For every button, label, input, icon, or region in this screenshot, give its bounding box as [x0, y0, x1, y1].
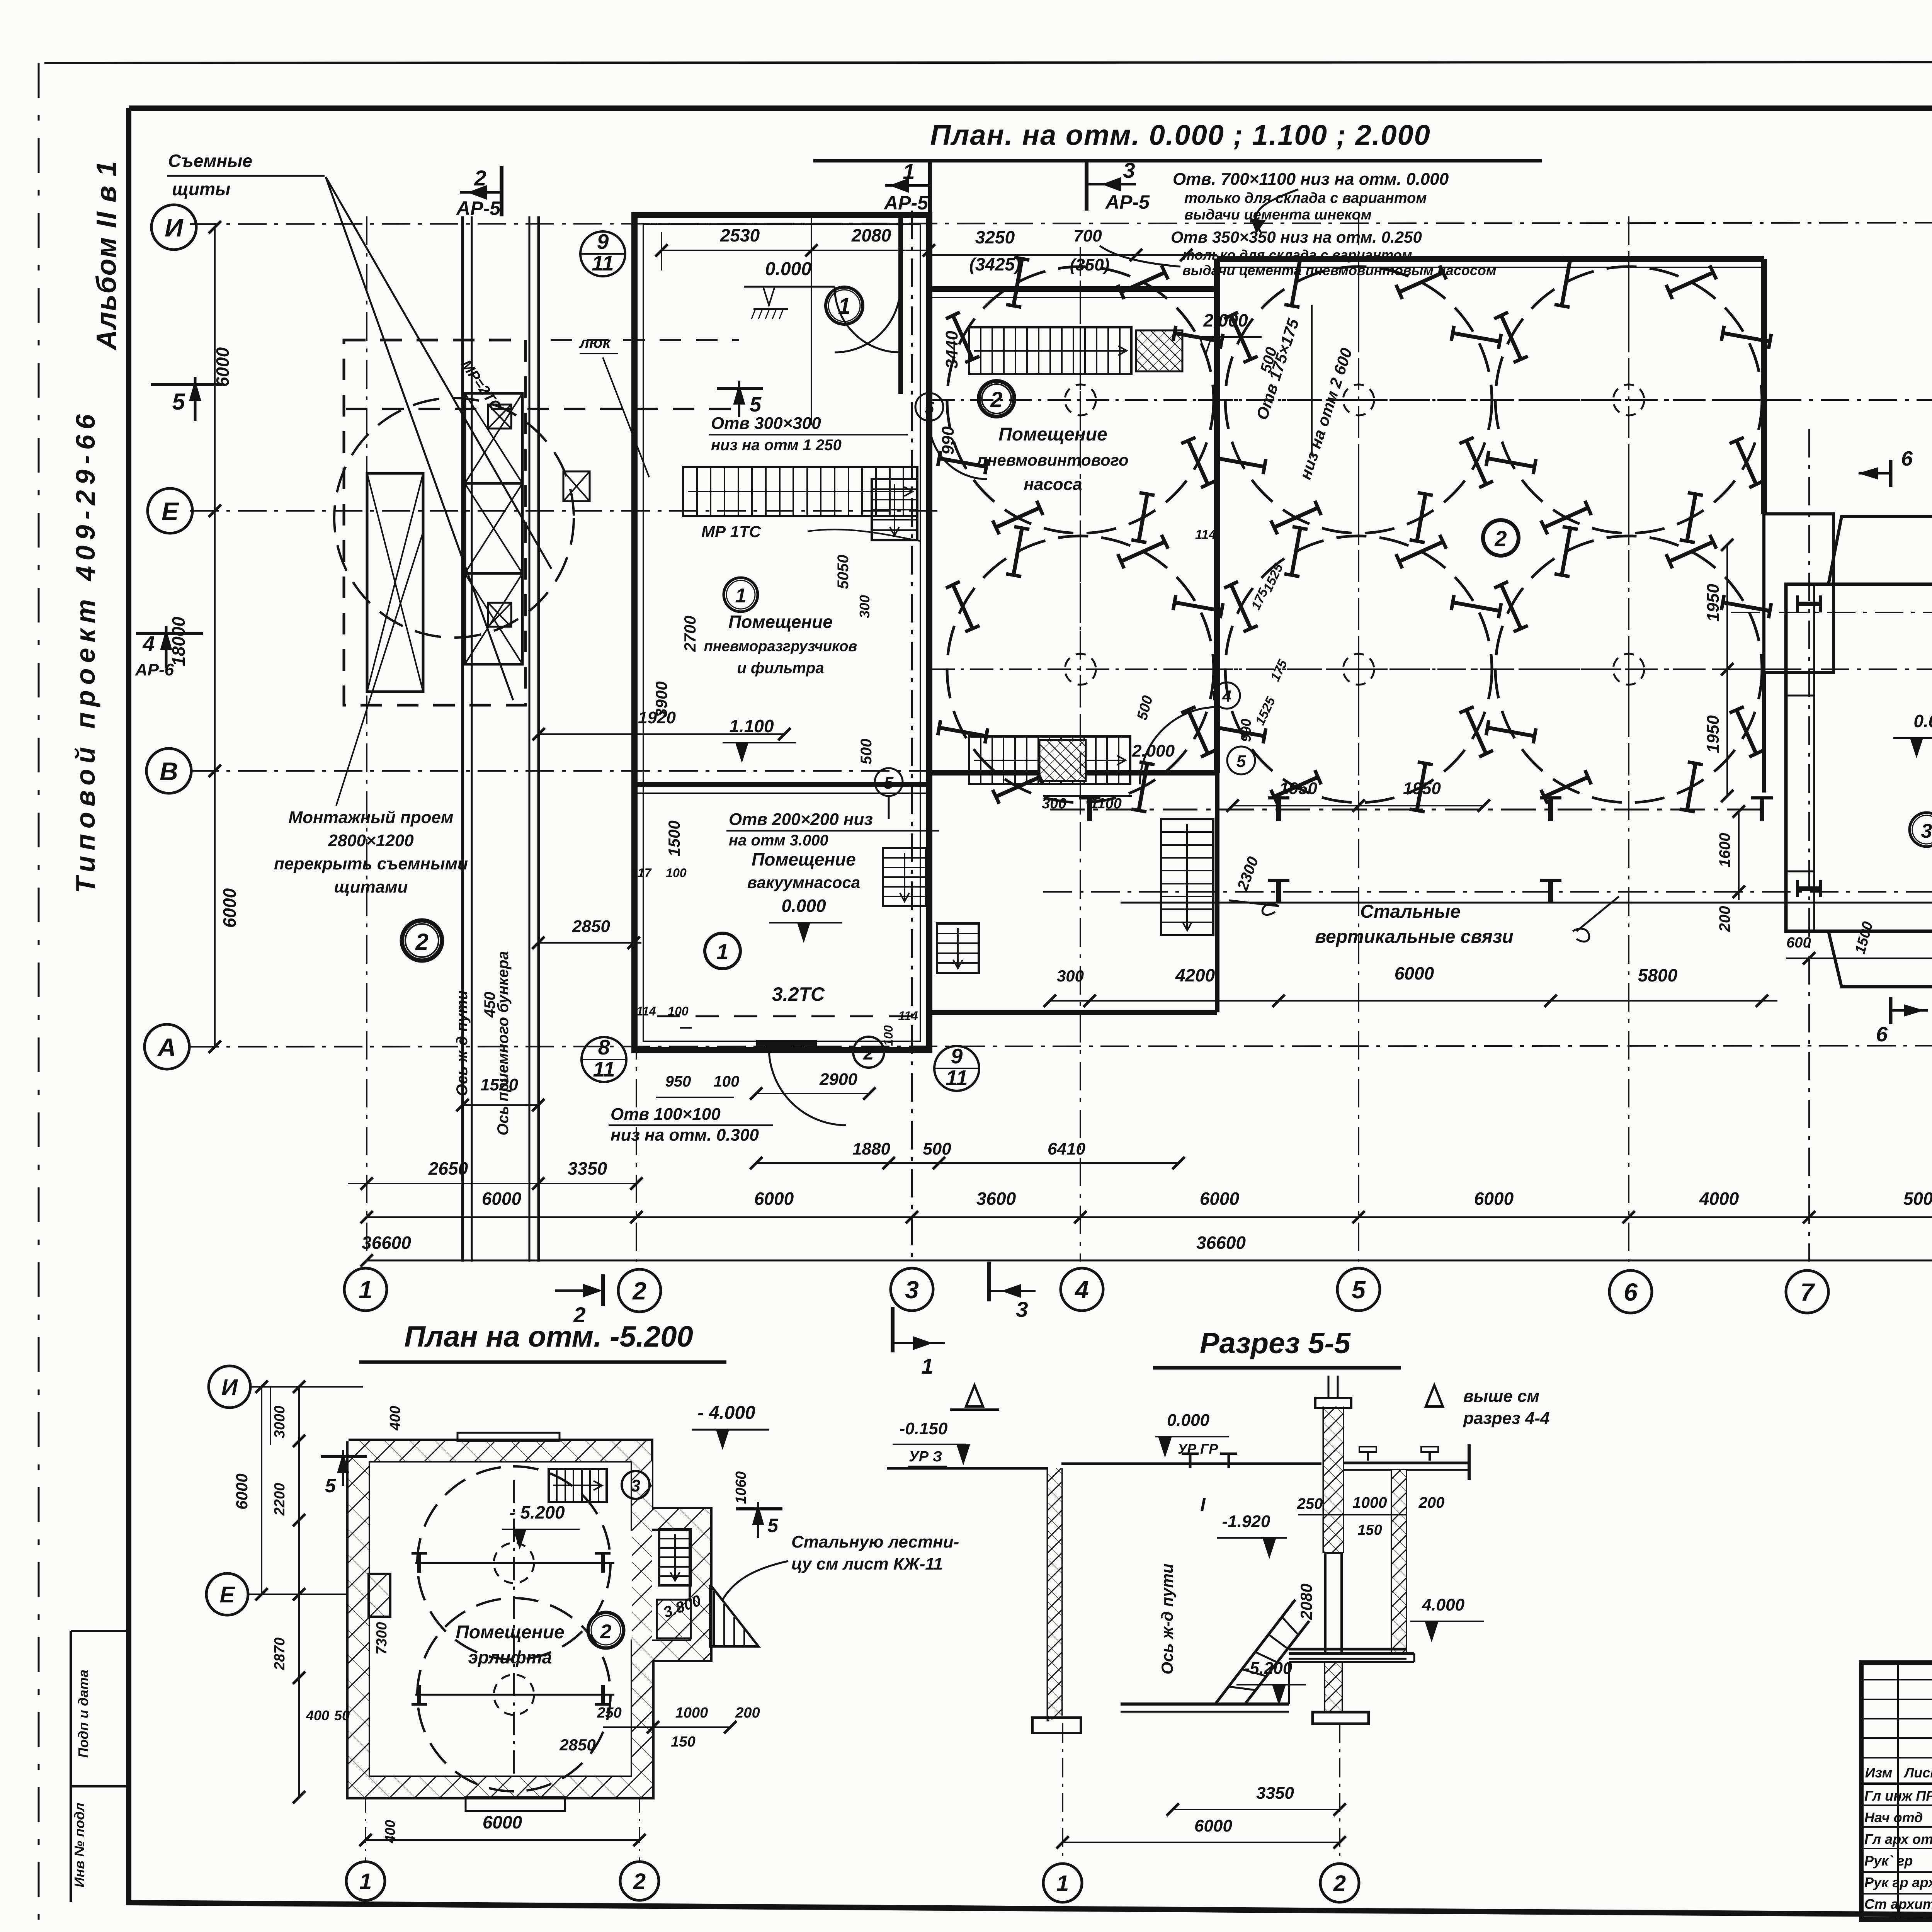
- svg-text:2700: 2700: [681, 616, 699, 652]
- room circle 1 mid: [724, 578, 758, 612]
- svg-text:1000: 1000: [675, 1705, 708, 1721]
- axis bubble 5 bottom: [1337, 1268, 1380, 1311]
- svg-text:1880: 1880: [852, 1139, 890, 1158]
- svg-text:Ст архит: Ст архит: [1864, 1896, 1932, 1912]
- svg-text:Отв 100×100: Отв 100×100: [611, 1105, 721, 1124]
- basement bubble I: [209, 1366, 250, 1408]
- left vertical dim chain: [214, 227, 216, 1047]
- svg-text:-1.920: -1.920: [1222, 1512, 1270, 1531]
- svg-text:2900: 2900: [819, 1070, 857, 1089]
- svg-text:6410: 6410: [1048, 1139, 1085, 1158]
- svg-text:1: 1: [921, 1354, 933, 1378]
- structure3 body: [1786, 584, 1932, 931]
- hatched box near stair bottom: [1039, 740, 1086, 781]
- svg-text:1.100: 1.100: [729, 716, 774, 736]
- basement left pier: [369, 1574, 390, 1617]
- svg-text:3250: 3250: [975, 227, 1015, 247]
- silo centre circle: [1065, 654, 1096, 685]
- dim 3250 3425 700 350: [929, 254, 1217, 256]
- basement dim 6000: [366, 1839, 639, 1841]
- bunker dashed outline: [344, 340, 526, 705]
- svg-text:400: 400: [306, 1708, 329, 1723]
- basement title underline: [359, 1361, 726, 1364]
- svg-text:150: 150: [671, 1734, 695, 1750]
- stair long upper: [683, 467, 917, 516]
- svg-text:150: 150: [1357, 1522, 1382, 1538]
- svg-text:А: А: [157, 1033, 176, 1061]
- door circle 5 mid: [1227, 747, 1255, 774]
- svg-text:5: 5: [1352, 1276, 1366, 1304]
- svg-text:Отв 200×200 низ: Отв 200×200 низ: [729, 810, 873, 829]
- s55 dim 3350: [1173, 1809, 1340, 1810]
- svg-text:Гл инж ПР: Гл инж ПР: [1864, 1788, 1932, 1804]
- stair pump room top: [969, 327, 1131, 374]
- svg-text:100: 100: [881, 1025, 895, 1046]
- silo tank circle: [1495, 536, 1762, 803]
- s55 bottom slab: [1121, 1702, 1289, 1706]
- basement bubble 1: [346, 1862, 385, 1900]
- svg-text:1: 1: [716, 939, 728, 964]
- axis bubble 6 bottom: [1609, 1270, 1652, 1313]
- basement section mark 5 right: [736, 1507, 782, 1510]
- svg-text:-5.200: -5.200: [1244, 1659, 1293, 1678]
- silo axis cross: [932, 668, 1229, 670]
- door arc mid: [1140, 707, 1217, 784]
- basement axis cross lower: [415, 1694, 614, 1696]
- sheet outer border top: [44, 62, 1932, 63]
- axis bubble E left: [148, 488, 192, 533]
- svg-text:АР-6: АР-6: [135, 660, 174, 679]
- svg-text:АР-5: АР-5: [883, 192, 929, 214]
- svg-text:18000: 18000: [168, 617, 189, 666]
- svg-text:250: 250: [1297, 1495, 1323, 1512]
- svg-text:Подп и дата: Подп и дата: [75, 1670, 91, 1758]
- hatch square 1: [488, 405, 511, 429]
- svg-text:выдачи цемента шнеком: выдачи цемента шнеком: [1184, 207, 1372, 223]
- left block outer wall: [634, 215, 929, 1050]
- svg-text:1500: 1500: [665, 820, 683, 856]
- hall south column line: [1050, 809, 1764, 811]
- dim 2900: [756, 1093, 869, 1094]
- axis line 4 vertical: [1080, 247, 1081, 1262]
- silo centre circle: [1613, 384, 1644, 415]
- stair lower right: [1161, 819, 1213, 935]
- svg-text:6000: 6000: [1474, 1189, 1514, 1209]
- svg-text:2: 2: [863, 1043, 874, 1064]
- svg-text:2.000: 2.000: [1203, 310, 1248, 330]
- bunker dashed line 2: [346, 408, 739, 410]
- bunker x-braced cells: [465, 393, 522, 483]
- svg-text:7: 7: [1800, 1278, 1815, 1306]
- svg-text:Е: Е: [220, 1582, 236, 1607]
- s55 left rail mark: [1189, 1454, 1192, 1468]
- axis line E horizontal: [190, 510, 939, 512]
- svg-text:500: 500: [923, 1139, 951, 1158]
- stair vacuum room corner: [883, 848, 926, 906]
- svg-text:3350: 3350: [568, 1158, 607, 1179]
- silo tank circle: [947, 267, 1214, 533]
- braces leader 1: [1262, 904, 1279, 915]
- basement outer wall: [349, 1441, 710, 1797]
- axis line A horizontal: [190, 1046, 1932, 1047]
- bottom detail dims 2850: [538, 942, 641, 944]
- s55 left footing: [1032, 1718, 1081, 1733]
- stair small right upper: [872, 479, 917, 540]
- basement axis stems: [365, 1797, 366, 1861]
- basement silo circle upper: [417, 1466, 611, 1660]
- svg-text:11: 11: [946, 1066, 968, 1090]
- svg-text:2800×1200: 2800×1200: [328, 831, 414, 850]
- s55 stairs: [1215, 1600, 1295, 1704]
- svg-text:1950: 1950: [1704, 715, 1723, 753]
- axis bubble A left: [145, 1024, 189, 1069]
- title block outer: [1861, 1663, 1932, 1920]
- svg-text:36600: 36600: [1196, 1233, 1246, 1253]
- svg-text:Лист: Лист: [1903, 1765, 1932, 1781]
- bunker dashed line 3: [551, 339, 739, 341]
- svg-text:0.000: 0.000: [1167, 1411, 1210, 1430]
- silo hall east wall lower: [1762, 672, 1766, 793]
- svg-text:Типовой проект 409-29-66: Типовой проект 409-29-66: [70, 409, 100, 893]
- svg-text:выдачи цемента пневмовинтовы: выдачи цемента пневмовинтовым насосом: [1182, 262, 1496, 278]
- room circle 1 upper: [826, 287, 863, 324]
- s55 rail sleepers: [1359, 1447, 1376, 1452]
- svg-text:200: 200: [735, 1705, 760, 1721]
- svg-text:4000: 4000: [1699, 1189, 1739, 1209]
- svg-text:МР 1ТС: МР 1ТС: [701, 522, 761, 541]
- s55 central wall lower stem: [1324, 1553, 1327, 1653]
- room divider upper: [898, 215, 903, 394]
- basement dim 250 line: [603, 1726, 653, 1728]
- hatched box near stair top: [1136, 330, 1182, 371]
- bunker dashed circle: [334, 398, 574, 638]
- hall south wall line: [1121, 902, 1932, 904]
- silo hall east annex: [1764, 514, 1833, 672]
- basement stair top right: [549, 1469, 607, 1502]
- silo anchor ticks: [953, 315, 973, 359]
- svg-text:117: 117: [631, 866, 652, 880]
- mid block lower walls: [927, 784, 932, 1012]
- svg-text:Ось ж-д пути: Ось ж-д пути: [454, 990, 471, 1096]
- svg-text:990: 990: [939, 426, 957, 455]
- structure3 section mark 6 upper: [1889, 460, 1893, 487]
- svg-text:1950: 1950: [1279, 779, 1317, 798]
- door arc room1: [835, 287, 900, 352]
- svg-text:И: И: [165, 213, 184, 242]
- svg-text:0.000: 0.000: [1913, 711, 1932, 731]
- axis line 5 vertical: [1358, 216, 1359, 1262]
- door circle 5 top: [915, 393, 943, 421]
- svg-text:Гл арх отд: Гл арх отд: [1864, 1831, 1932, 1847]
- silo axis cross: [1210, 399, 1507, 401]
- svg-text:1: 1: [1056, 1871, 1069, 1896]
- axis line 7 vertical: [1808, 429, 1810, 1262]
- svg-text:щитами: щитами: [334, 878, 408, 896]
- structure3 section mark 6 lower: [1889, 997, 1893, 1024]
- silo tank circle: [1495, 267, 1762, 533]
- section mark 1 bottom: [891, 1307, 895, 1352]
- svg-text:114: 114: [898, 1009, 918, 1023]
- svg-text:1950: 1950: [1704, 584, 1723, 622]
- svg-text:300: 300: [1057, 967, 1084, 985]
- s55 slab end tick: [1468, 1444, 1471, 1480]
- s55 central wall below slab: [1324, 1662, 1327, 1712]
- svg-text:5000: 5000: [1903, 1189, 1932, 1209]
- svg-text:200: 200: [1716, 906, 1733, 932]
- svg-text:2530: 2530: [720, 225, 760, 245]
- door circle 2 bottom: [853, 1037, 884, 1068]
- svg-text:1060: 1060: [733, 1471, 749, 1504]
- svg-text:114: 114: [1195, 527, 1216, 542]
- svg-text:36600: 36600: [362, 1233, 411, 1253]
- bunker inner cell: [367, 473, 423, 692]
- svg-text:Помещение: Помещение: [752, 849, 856, 869]
- svg-text:0.000: 0.000: [781, 896, 826, 916]
- basement annex stair: [659, 1529, 691, 1585]
- column marks B line: [1276, 880, 1281, 903]
- svg-text:100: 100: [714, 1073, 740, 1090]
- dim row total 36600: [367, 1260, 1932, 1262]
- svg-text:щиты: щиты: [172, 179, 230, 199]
- dim 1920: [539, 733, 784, 735]
- silo tank circle: [1225, 536, 1492, 803]
- svg-text:1920: 1920: [638, 708, 676, 727]
- svg-text:5: 5: [750, 393, 762, 416]
- s55 wall cap: [1315, 1398, 1351, 1408]
- stair pump room bottom: [969, 736, 1130, 784]
- svg-text:500: 500: [858, 739, 875, 765]
- basement wall hatch bottom: [349, 1777, 652, 1797]
- hatch square 3: [488, 603, 511, 627]
- svg-text:8: 8: [598, 1035, 610, 1059]
- pump room circle 2 marker: [979, 381, 1014, 417]
- svg-text:Нач отд: Нач отд: [1864, 1810, 1923, 1825]
- svg-text:6000: 6000: [482, 1189, 522, 1209]
- svg-text:2: 2: [1333, 1871, 1346, 1896]
- basement vertical axis: [513, 1480, 515, 1777]
- svg-text:6: 6: [1876, 1023, 1888, 1046]
- axis bubble 2 bottom: [618, 1269, 661, 1312]
- svg-text:6000: 6000: [1194, 1816, 1232, 1835]
- svg-text:низ на отм. 0.300: низ на отм. 0.300: [611, 1126, 759, 1145]
- silo tank circle: [947, 536, 1214, 803]
- svg-text:11: 11: [593, 1057, 615, 1081]
- svg-text:6000: 6000: [754, 1189, 794, 1209]
- svg-text:3: 3: [1921, 820, 1932, 842]
- svg-text:600: 600: [1786, 935, 1811, 951]
- dim 950 100: [656, 1097, 734, 1098]
- silo anchor ticks: [1501, 585, 1521, 629]
- door circle 4: [1214, 682, 1240, 709]
- svg-text:Помещение: Помещение: [456, 1622, 564, 1643]
- hall room circle 2 marker: [1483, 520, 1519, 556]
- silo anchor ticks: [1231, 585, 1251, 629]
- dim row 300 4200 6000 5800: [1050, 1000, 1777, 1002]
- section mark 5 inner: [717, 387, 763, 390]
- silo centre circle: [1613, 654, 1644, 685]
- basement bubble 2: [620, 1862, 659, 1900]
- silo axis cross: [1210, 668, 1507, 670]
- axis line D horizontal: [1731, 612, 1932, 613]
- svg-text:450: 450: [481, 992, 498, 1018]
- door arc bottom: [769, 1048, 846, 1125]
- svg-text:пневморазгрузчиков: пневморазгрузчиков: [704, 638, 857, 655]
- triangle mark left: [966, 1385, 983, 1406]
- axis line 3 vertical: [911, 211, 913, 1262]
- svg-text:на отм 3.000: на отм 3.000: [729, 832, 828, 849]
- construction circle 2 railway: [402, 920, 442, 961]
- structure3 circle 3: [1910, 813, 1932, 847]
- dim 2530 2080 above left block: [662, 250, 929, 251]
- silo hall north wall: [1217, 256, 1764, 262]
- svg-text:2870: 2870: [272, 1638, 288, 1671]
- s55 central wall upper hatched: [1323, 1406, 1325, 1553]
- svg-text:6: 6: [1901, 447, 1913, 470]
- lyuk leader: [603, 357, 649, 477]
- svg-text:1950: 1950: [1403, 779, 1441, 798]
- s55 mid slab: [1289, 1652, 1414, 1655]
- axis line B horizontal: [1043, 891, 1932, 893]
- svg-text:3: 3: [1016, 1297, 1028, 1321]
- hatch square 2: [563, 471, 590, 501]
- axis line V horizontal: [190, 770, 939, 772]
- svg-text:5800: 5800: [1638, 965, 1678, 985]
- sidebar stamp table: [70, 1631, 72, 1902]
- svg-text:4: 4: [142, 631, 155, 656]
- svg-text:И: И: [221, 1375, 238, 1400]
- basement bubble E: [206, 1573, 248, 1615]
- svg-text:вакуумнасоса: вакуумнасоса: [747, 873, 860, 891]
- silo anchor ticks: [1501, 315, 1521, 359]
- s55 wall top stem: [1328, 1376, 1330, 1398]
- section 5-5 underline: [1153, 1366, 1401, 1370]
- section mark 2 bottom: [555, 1289, 598, 1292]
- svg-text:2080: 2080: [1297, 1583, 1315, 1620]
- silo centre circle: [1343, 384, 1374, 415]
- silo tank circle: [1225, 267, 1492, 533]
- svg-text:3.2ТС: 3.2ТС: [772, 983, 825, 1005]
- dim row detail left: [348, 1183, 636, 1184]
- svg-text:2200: 2200: [272, 1483, 288, 1516]
- section mark 4 AP-6 left: [136, 632, 203, 635]
- svg-text:7300: 7300: [374, 1622, 390, 1655]
- svg-text:Разрез 5-5: Разрез 5-5: [1200, 1327, 1351, 1360]
- svg-text:100: 100: [666, 866, 687, 880]
- svg-text:2.000: 2.000: [1132, 742, 1175, 760]
- section mark 5 left: [151, 383, 222, 386]
- svg-text:400: 400: [387, 1406, 403, 1430]
- main title underline: [813, 159, 1542, 163]
- svg-text:5: 5: [325, 1475, 336, 1497]
- svg-text:2850: 2850: [572, 917, 610, 936]
- svg-text:700: 700: [1073, 226, 1102, 245]
- left block mid wall: [634, 782, 929, 787]
- leader to opening 2: [1100, 246, 1180, 267]
- basement dim chain inner: [261, 1387, 262, 1594]
- svg-text:Ось приемного бункера: Ось приемного бункера: [495, 951, 512, 1135]
- door opening bottom: [756, 1040, 817, 1047]
- svg-text:Съемные: Съемные: [168, 151, 252, 171]
- room circle 1 lower: [705, 933, 740, 969]
- svg-text:300: 300: [857, 595, 872, 618]
- svg-text:В: В: [160, 757, 178, 786]
- silo centre circle: [1065, 384, 1096, 415]
- svg-text:Стальные: Стальные: [1360, 901, 1461, 922]
- svg-text:100: 100: [668, 1004, 689, 1018]
- svg-text:Отв. 700×1100 низ на отм. 0.0: Отв. 700×1100 низ на отм. 0.000: [1173, 170, 1449, 189]
- svg-text:Помещение: Помещение: [728, 612, 833, 632]
- drawing frame: [129, 105, 1932, 111]
- axis line G horizontal: [1198, 668, 1932, 670]
- axis bubble 7 bottom: [1786, 1270, 1828, 1313]
- rail track line 1: [461, 216, 464, 1262]
- structure3 north canopy: [1828, 517, 1932, 584]
- svg-text:только для склада с вариантом: только для склада с вариантом: [1184, 190, 1427, 206]
- svg-text:5: 5: [925, 398, 934, 417]
- svg-text:5: 5: [1236, 752, 1246, 771]
- svg-text:насоса: насоса: [1024, 475, 1082, 494]
- svg-text:1600: 1600: [1716, 833, 1733, 867]
- door arc 5 top: [929, 421, 987, 479]
- svg-text:200: 200: [1418, 1494, 1445, 1511]
- door circle 5 mid-left: [875, 768, 903, 796]
- title block revision rows: [1861, 1679, 1932, 1680]
- svg-text:и фильтра: и фильтра: [737, 660, 824, 677]
- svg-text:5: 5: [767, 1515, 779, 1536]
- svg-text:1000: 1000: [1353, 1494, 1387, 1511]
- svg-text:6000: 6000: [233, 1473, 251, 1509]
- svg-text:эрлифта: эрлифта: [468, 1647, 552, 1667]
- frac bubble 9-11 top: [580, 231, 625, 276]
- silo axis cross: [1480, 399, 1777, 401]
- basement axis cross upper: [415, 1562, 614, 1564]
- svg-text:6000: 6000: [483, 1812, 522, 1832]
- svg-text:Изм: Изм: [1865, 1765, 1892, 1781]
- svg-text:6000: 6000: [219, 888, 240, 928]
- svg-text:(3425): (3425): [969, 254, 1021, 274]
- pump room south wall: [929, 770, 1217, 776]
- basement bottom slab: [466, 1797, 565, 1811]
- axis line I horizontal: [190, 223, 1932, 224]
- s55 dim 6000: [1063, 1842, 1340, 1843]
- svg-text:Монтажный проем: Монтажный проем: [288, 808, 453, 827]
- basement outside stair: [710, 1585, 759, 1646]
- svg-text:разрез 4-4: разрез 4-4: [1463, 1409, 1549, 1428]
- structure3 inner walls: [1813, 584, 1815, 931]
- svg-text:-0.150: -0.150: [900, 1419, 948, 1438]
- svg-text:2: 2: [632, 1277, 646, 1305]
- svg-text:950: 950: [665, 1073, 691, 1090]
- silo axis cross: [1480, 668, 1777, 670]
- svg-text:114: 114: [636, 1004, 656, 1018]
- braces leader 2: [1573, 929, 1589, 942]
- svg-text:цу см лист КЖ-11: цу см лист КЖ-11: [791, 1554, 943, 1573]
- svg-text:перекрыть съемными: перекрыть съемными: [274, 854, 468, 873]
- silo hall west wall: [1214, 259, 1220, 773]
- svg-text:11: 11: [592, 251, 614, 275]
- basement wall hatch top: [349, 1441, 651, 1461]
- triangle mark right: [1426, 1385, 1443, 1406]
- svg-text:Е: Е: [162, 497, 179, 526]
- svg-text:Ось ж-д пути: Ось ж-д пути: [1158, 1563, 1176, 1674]
- svg-text:1: 1: [838, 294, 850, 319]
- svg-text:УР З: УР З: [909, 1449, 942, 1465]
- svg-text:Отв 350×350 низ на отм. 0.250: Отв 350×350 низ на отм. 0.250: [1171, 228, 1422, 246]
- basement top slab: [457, 1433, 560, 1441]
- svg-text:5050: 5050: [835, 555, 852, 589]
- svg-text:Рук` гр: Рук` гр: [1864, 1853, 1913, 1869]
- svg-text:Инв № подл: Инв № подл: [71, 1803, 87, 1887]
